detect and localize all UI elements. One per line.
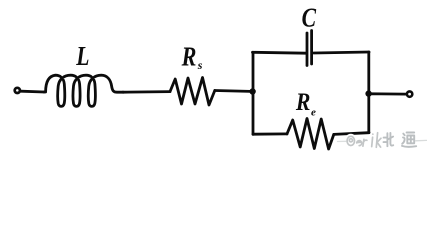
wire: right junction to output terminal <box>369 92 406 95</box>
node: left junction dot <box>249 88 255 94</box>
svg-text:L: L <box>75 42 89 72</box>
watermark halo <box>347 133 416 148</box>
wire: bottom rail right of Re <box>334 133 369 135</box>
svg-text:s: s <box>197 58 203 72</box>
output terminal (right, open circle) <box>407 91 412 96</box>
watermark "@erik" + CJK, with white halo breaking lines <box>338 133 427 148</box>
watermark dash right <box>416 139 427 141</box>
wire: input terminal to inductor <box>21 90 44 94</box>
svg-text:e: e <box>311 107 316 119</box>
svg-text:R: R <box>181 43 197 73</box>
wire: right rail of parallel section <box>367 52 370 133</box>
wire: left rail of parallel section <box>252 52 255 134</box>
watermark k <box>376 133 381 148</box>
wire: top rail right of capacitor <box>314 52 369 53</box>
watermark i <box>372 134 373 146</box>
watermark CJK char 1 (bei) <box>384 133 394 146</box>
node: right junction dot <box>365 90 371 96</box>
svg-text:R: R <box>295 89 310 117</box>
watermark @ <box>347 136 354 145</box>
watermark e <box>357 141 362 146</box>
watermark CJK char 2 (tong) <box>402 133 416 147</box>
wire: inductor to Rs <box>123 90 170 93</box>
wire: Rs to left junction <box>215 89 250 93</box>
svg-text:C: C <box>302 3 317 33</box>
input terminal (left, open circle) <box>15 88 20 93</box>
inductor L (coil with 3 loops) <box>44 75 123 106</box>
wire: bottom rail left of Re <box>253 132 287 135</box>
resistor Rs (zigzag) <box>170 78 215 106</box>
resistor Re (zigzag) <box>287 119 334 150</box>
watermark dash left <box>338 140 347 142</box>
watermark r <box>363 139 367 146</box>
wire: top rail left of capacitor <box>253 51 307 55</box>
capacitor C (plates) <box>306 33 309 66</box>
